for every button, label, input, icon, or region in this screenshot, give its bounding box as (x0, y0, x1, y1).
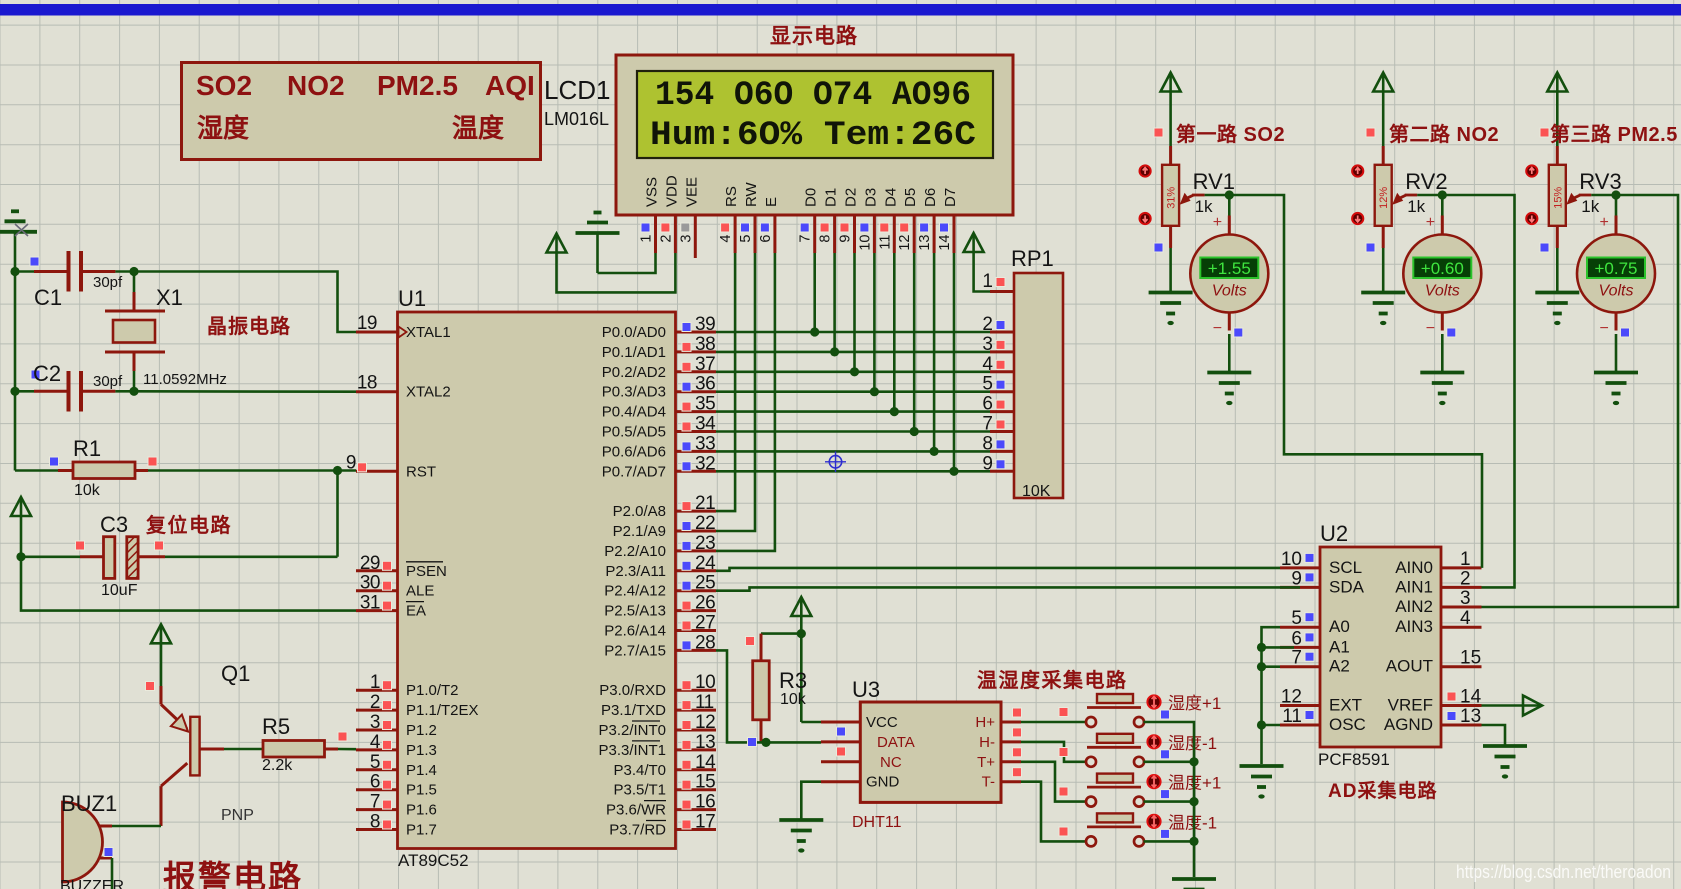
power +5V (RV2) (1373, 73, 1393, 92)
svg-text:Volts: Volts (1425, 283, 1460, 300)
label X1 (156, 285, 183, 310)
U2 pin 2 AIN1 (1395, 568, 1481, 596)
svg-text:P1.3: P1.3 (406, 742, 437, 759)
svg-text:AIN0: AIN0 (1395, 558, 1433, 577)
svg-text:13: 13 (695, 732, 715, 753)
label 晶振电路 (207, 314, 291, 338)
U1 pin 23 P2.2/A10 (604, 533, 716, 560)
RP1 pin 4 (982, 354, 1014, 375)
U2 pin 9 SDA (1280, 568, 1365, 596)
U1 pin 30 ALE (356, 573, 434, 600)
U1 pin 5 P1.4 (356, 752, 437, 779)
junction C2/X1 (129, 387, 138, 396)
wire power to RV3 (1556, 91, 1559, 165)
svg-text:7: 7 (370, 792, 380, 813)
label BUZZER (60, 878, 124, 889)
svg-text:VSS: VSS (644, 177, 661, 207)
svg-text:14: 14 (1460, 687, 1482, 708)
svg-text:39: 39 (695, 314, 715, 335)
square R1 left (50, 457, 59, 466)
wire meter2 to ground (1441, 334, 1444, 372)
wire RV3 wiper (1591, 194, 1616, 197)
wire switch to bus (1144, 800, 1194, 803)
wire EA rail (21, 557, 356, 611)
svg-text:报警电路: 报警电路 (163, 859, 303, 889)
wire left rail (14, 272, 17, 471)
wire LCD D6 vertical (933, 253, 936, 451)
svg-text:AOUT: AOUT (1386, 657, 1433, 676)
ground (RV2) (1361, 293, 1405, 326)
svg-text:Q1: Q1 (221, 661, 250, 686)
svg-text:P1.7: P1.7 (406, 822, 437, 839)
svg-text:10K: 10K (1022, 483, 1051, 500)
svg-text:P1.2: P1.2 (406, 722, 437, 739)
ground (RV3) (1535, 293, 1579, 326)
U1 pin 26 P2.5/A13 (604, 593, 716, 620)
wire C1 to XTAL1 (134, 272, 356, 333)
U1 pin 1 P1.0/T2 (356, 672, 459, 699)
svg-text:P3.0/RXD: P3.0/RXD (599, 682, 666, 699)
ground (crystal, top-left) (0, 211, 37, 271)
wire P0.5 to RP1 pin 7 (716, 430, 990, 433)
svg-text:C3: C3 (100, 512, 128, 537)
wire RV1 to AIN0 (1229, 195, 1482, 568)
square RV3 top (1540, 128, 1549, 137)
LCD1 pin 14 D7 (937, 188, 959, 253)
svg-text:25: 25 (695, 573, 715, 594)
U3 pin T- (982, 774, 1021, 791)
U1 pin 35 P0.4/AD4 (602, 394, 716, 421)
svg-text:R3: R3 (779, 668, 807, 693)
origin marker (825, 452, 846, 473)
label DHT11 (852, 814, 902, 831)
capacitor C2 (15, 371, 134, 412)
svg-text:显示电路: 显示电路 (770, 24, 858, 48)
square DATA (748, 738, 757, 747)
svg-text:PSEN: PSEN (406, 563, 447, 580)
junction A2 (1257, 662, 1266, 671)
U2 pin 3 AIN2 (1395, 588, 1481, 616)
wire LCD D1 vertical (833, 253, 836, 352)
label 11.0592MHz (143, 371, 227, 388)
svg-text:U1: U1 (398, 286, 426, 311)
wire H+ to switch1 (1021, 721, 1085, 724)
svg-text:+0.60: +0.60 (1421, 259, 1464, 278)
svg-text:31%: 31% (1166, 187, 1178, 209)
svg-text:38: 38 (695, 334, 715, 355)
junction D7/P0.7 (949, 467, 958, 476)
junction switch bus (1189, 797, 1198, 806)
label U3 (852, 677, 880, 702)
U2 pin 14 VREF (1388, 687, 1482, 715)
square RV1 bottom (1154, 243, 1163, 252)
wire P0.6 to RP1 pin 8 (716, 450, 990, 453)
ground (switch bus) (1172, 879, 1216, 889)
U1 pin 18 XTAL2 (356, 373, 451, 401)
wire buzzer pin2 down (111, 858, 114, 889)
svg-text:P3.4/T0: P3.4/T0 (613, 762, 666, 779)
svg-text:2: 2 (658, 235, 674, 243)
svg-text:P3.7/RD: P3.7/RD (609, 822, 666, 839)
svg-text:温度-1: 温度-1 (1168, 813, 1217, 832)
label RV3 1k (1581, 197, 1599, 216)
U1 pin 2 P1.1/T2EX (356, 692, 479, 719)
U1 AT89C52 body (398, 312, 676, 849)
junction switch bus (1189, 757, 1198, 766)
svg-text:R5: R5 (262, 714, 290, 739)
svg-text:VCC: VCC (866, 714, 898, 731)
square Q1 emitter (146, 682, 155, 691)
junction D1/P0.1 (830, 347, 839, 356)
svg-text:RST: RST (406, 463, 436, 480)
wire VCC (801, 721, 821, 724)
svg-text:E: E (763, 197, 780, 207)
wire power to RV1 (1169, 91, 1172, 165)
label 湿度-1 (1168, 734, 1217, 753)
svg-text:T+: T+ (977, 754, 995, 771)
LCD text line1 (655, 77, 971, 115)
svg-text:D1: D1 (823, 188, 840, 207)
U1 pin 37 P0.2/AD2 (602, 354, 716, 381)
U1 pin 13 P3.3/INT1 (598, 732, 716, 759)
svg-text:P1.1/T2EX: P1.1/T2EX (406, 702, 479, 719)
wire P0.3 to RP1 pin 5 (716, 390, 990, 393)
square R5 right (338, 732, 347, 741)
svg-text:−: − (1213, 320, 1222, 337)
wire R1 to RST (338, 469, 357, 472)
square R3 top (746, 637, 755, 646)
label R5 (262, 714, 290, 739)
svg-text:P2.3/A11: P2.3/A11 (605, 563, 666, 580)
U1 pin 11 P3.1/TXD (601, 692, 716, 719)
label 复位电路 (145, 513, 232, 537)
wire meter3 + (1615, 195, 1618, 216)
svg-text:30pf: 30pf (93, 274, 123, 291)
wire H- to switch2 (1021, 742, 1085, 762)
svg-text:C1: C1 (34, 285, 62, 310)
switch SW3 温度+1 (1086, 774, 1161, 807)
svg-text:12: 12 (897, 235, 913, 251)
svg-text:2: 2 (370, 692, 380, 713)
junction D5/P0.5 (910, 427, 919, 436)
svg-text:RV2: RV2 (1405, 169, 1447, 194)
U3 pin GND (821, 774, 900, 791)
svg-text:P1.4: P1.4 (406, 762, 437, 779)
svg-text:9: 9 (838, 235, 854, 243)
label RV1 (1193, 169, 1235, 194)
svg-text:EA: EA (406, 603, 426, 620)
ground (U2 address) (1240, 766, 1284, 799)
wire RV3 bottom (1556, 226, 1559, 292)
svg-text:第一路 SO2: 第一路 SO2 (1176, 122, 1285, 146)
wire LCD D5 vertical (913, 253, 916, 432)
svg-text:154 O6O O74 AO96: 154 O6O O74 AO96 (655, 77, 971, 115)
U1 pin 29 PSEN (356, 553, 447, 580)
square switch2 in (1059, 748, 1068, 757)
svg-text:−: − (1426, 320, 1435, 337)
U2 pin 11 OSC (1280, 706, 1366, 734)
svg-text:第三路 PM2.5: 第三路 PM2.5 (1550, 122, 1678, 146)
U1 pin 15 P3.5/T1 (613, 772, 716, 799)
square VCC (837, 727, 846, 736)
LCD1 pin 11 D4 (877, 188, 899, 253)
svg-text:11: 11 (877, 235, 893, 250)
wire LCD pin5 to U1 P2.1 (716, 253, 755, 531)
U1 pin 24 P2.3/A11 (605, 553, 716, 580)
svg-text:AGND: AGND (1384, 715, 1433, 734)
svg-text:18: 18 (357, 373, 377, 394)
svg-text:T-: T- (982, 774, 995, 791)
U1 pin 31 EA (356, 593, 426, 620)
square RV1 top (1154, 128, 1163, 137)
svg-text:7: 7 (1291, 648, 1302, 669)
wire RV2 to AIN1 (1442, 195, 1514, 587)
svg-text:12%: 12% (1378, 187, 1390, 209)
label 温湿度采集电路 (977, 668, 1128, 692)
svg-text:1k: 1k (1407, 197, 1425, 216)
svg-text:RW: RW (743, 181, 760, 207)
label C1 30pf (93, 274, 123, 291)
wire P0.7 to RP1 pin 9 (716, 470, 990, 473)
power +5V (RV3) (1547, 73, 1567, 92)
LCD1 pin 8 D1 (818, 188, 840, 253)
svg-text:P0.4/AD4: P0.4/AD4 (602, 404, 666, 421)
svg-text:SCL: SCL (1329, 558, 1362, 577)
label meter3 minus (1600, 320, 1609, 337)
svg-text:27: 27 (695, 613, 715, 634)
label C3 10uF (101, 582, 138, 599)
label R3 10k (780, 691, 807, 708)
U2 pin 5 A0 (1280, 608, 1350, 636)
svg-text:P0.5/AD5: P0.5/AD5 (602, 424, 666, 441)
svg-text:SO2: SO2 (196, 70, 252, 101)
square RV3 bottom (1540, 243, 1549, 252)
LCD1 pin 3 VEE (678, 177, 700, 258)
wire switch bus (1144, 722, 1194, 877)
square meter2 minus (1447, 328, 1456, 337)
svg-text:Hum:6O% Tem:26C: Hum:6O% Tem:26C (650, 117, 976, 155)
svg-text:AIN1: AIN1 (1395, 577, 1433, 596)
svg-text:4: 4 (718, 235, 734, 243)
wire LCD D4 vertical (893, 253, 896, 412)
svg-text:VREF: VREF (1388, 696, 1433, 715)
LCD1 pin 13 D6 (917, 188, 939, 253)
svg-text:晶振电路: 晶振电路 (207, 314, 291, 338)
junction OSC (1257, 720, 1266, 729)
LCD1 pin 2 VDD (658, 175, 680, 253)
svg-text:P2.0/A8: P2.0/A8 (613, 503, 666, 520)
square BUZ1 (104, 848, 113, 857)
svg-text:P2.7/A15: P2.7/A15 (604, 642, 666, 659)
U2 pin 7 A2 (1280, 648, 1350, 676)
svg-text:第二路 NO2: 第二路 NO2 (1389, 122, 1499, 146)
svg-text:P0.3/AD3: P0.3/AD3 (602, 384, 666, 401)
svg-text:A1: A1 (1329, 637, 1350, 656)
svg-text:+0.75: +0.75 (1594, 259, 1637, 278)
label RV2 1k (1407, 197, 1425, 216)
svg-text:1k: 1k (1195, 197, 1213, 216)
label meter1 minus (1213, 320, 1222, 337)
svg-text:15: 15 (695, 772, 715, 793)
svg-text:13: 13 (1460, 706, 1481, 727)
svg-text:VDD: VDD (663, 175, 680, 207)
U1 pin 21 P2.0/A8 (613, 493, 716, 520)
ground (LCD VSS) (576, 213, 620, 274)
RP1 pin 2 (982, 314, 1014, 335)
junction switch bus (1189, 837, 1198, 846)
square C3 left (76, 541, 85, 550)
LCD1 pin 7 D0 (798, 188, 820, 253)
U1 pin 14 P3.4/T0 (613, 752, 716, 779)
svg-text:1: 1 (370, 672, 380, 693)
svg-text:P2.2/A10: P2.2/A10 (604, 543, 666, 560)
square meter3 minus (1621, 328, 1630, 337)
wire LCD D3 vertical (873, 253, 876, 392)
svg-text:37: 37 (695, 354, 715, 375)
label R5 2.2k (262, 757, 293, 774)
label Q1 (221, 661, 250, 686)
wire RV1 bottom (1169, 226, 1172, 292)
wire AGND to ground (1482, 725, 1506, 745)
wire buzzer to Q1 collector (112, 825, 161, 828)
junction left rail / C2 (10, 387, 19, 396)
U3 pin T+ (977, 754, 1021, 771)
power +5V (Q1) (151, 624, 171, 643)
svg-text:BUZ1: BUZ1 (61, 791, 117, 816)
U1 pin 7 P1.6 (356, 792, 437, 819)
svg-text:P0.2/AD2: P0.2/AD2 (602, 364, 666, 381)
svg-text:5: 5 (738, 235, 754, 243)
svg-text:U3: U3 (852, 677, 880, 702)
wire power to RV2 (1382, 91, 1385, 165)
svg-text:P3.1/TXD: P3.1/TXD (601, 702, 666, 719)
U2 pin 1 AIN0 (1395, 549, 1481, 577)
U1 pin 28 P2.7/A15 (604, 632, 716, 659)
svg-text:D5: D5 (902, 188, 919, 207)
LCD1 pin 6 E (758, 197, 780, 253)
svg-text:19: 19 (357, 313, 377, 334)
ground (U3) (779, 820, 823, 853)
svg-text:湿度+1: 湿度+1 (1168, 694, 1221, 713)
svg-text:+: + (1600, 214, 1609, 231)
square switch3 out (1161, 790, 1170, 799)
svg-text:10: 10 (695, 672, 715, 693)
wire T- to switch4 (1021, 782, 1085, 842)
capacitor C1 (15, 251, 134, 292)
svg-text:1k: 1k (1581, 197, 1599, 216)
U2 pin 6 A1 (1280, 628, 1350, 656)
svg-text:22: 22 (695, 513, 715, 534)
square U3 right 2 (1013, 728, 1022, 737)
label PCF8591 (1318, 750, 1390, 769)
svg-text:P1.5: P1.5 (406, 782, 437, 799)
wire power to C3 (20, 516, 23, 557)
resistor R3 (753, 634, 770, 743)
svg-text:NC: NC (880, 754, 902, 771)
svg-text:P2.5/A13: P2.5/A13 (604, 603, 666, 620)
svg-text:RV3: RV3 (1579, 169, 1621, 194)
svg-text:21: 21 (695, 493, 715, 514)
U3 pin VCC (821, 714, 898, 731)
svg-text:10k: 10k (74, 482, 101, 499)
label C1 (34, 285, 62, 310)
svg-text:D3: D3 (862, 188, 879, 207)
junction D6/P0.6 (930, 447, 939, 456)
RP1 pin 3 (982, 334, 1014, 355)
U3 pin DATA (821, 734, 915, 751)
svg-text:31: 31 (360, 593, 380, 614)
junction D0/P0.0 (810, 327, 819, 336)
svg-text:AIN2: AIN2 (1395, 597, 1433, 616)
junction D3/P0.3 (870, 387, 879, 396)
U1 pin 33 P0.6/AD6 (602, 433, 716, 460)
svg-text:2.2k: 2.2k (262, 757, 293, 774)
svg-text:10k: 10k (780, 691, 807, 708)
U1 pin 4 P1.3 (356, 732, 437, 759)
svg-text:VEE: VEE (683, 177, 700, 207)
svg-text:26: 26 (695, 593, 715, 614)
wire C2 to XTAL2 (134, 390, 356, 393)
label 显示电路 (770, 24, 858, 48)
wire power down (800, 616, 803, 722)
label 湿度+1 (1168, 694, 1221, 713)
svg-text:P0.0/AD0: P0.0/AD0 (602, 324, 666, 341)
svg-text:16: 16 (695, 792, 715, 813)
watermark (1456, 862, 1671, 882)
resistor R1 (15, 462, 338, 479)
square switch3 in (1059, 787, 1068, 796)
wire SCL from U1 P2.3 (716, 568, 1280, 571)
LCD1 screen (637, 71, 993, 158)
potentiometer RV2 (1352, 165, 1417, 226)
wire R3 top rail (761, 632, 801, 635)
svg-text:11: 11 (1282, 706, 1302, 727)
label RP1 (1011, 246, 1054, 271)
svg-text:4: 4 (1460, 608, 1471, 629)
U1 pin 19 XTAL1 (356, 313, 451, 341)
label RV3 (1579, 169, 1621, 194)
svg-text:30: 30 (360, 573, 380, 594)
square U3 right 4 (1013, 768, 1022, 777)
svg-text:11.0592MHz: 11.0592MHz (143, 371, 227, 388)
buzzer BUZ1 (63, 802, 113, 882)
svg-text:H+: H+ (975, 714, 995, 731)
junction RV1 out (1225, 190, 1234, 199)
square C1 (30, 257, 39, 266)
label RV2 (1405, 169, 1447, 194)
wire VREF to power (1482, 704, 1524, 707)
svg-text:DHT11: DHT11 (852, 814, 902, 831)
svg-text:R1: R1 (73, 436, 101, 461)
svg-text:5: 5 (370, 752, 380, 773)
svg-text:35: 35 (695, 394, 715, 415)
svg-text:14: 14 (937, 235, 953, 251)
U2 pin 13 AGND (1384, 706, 1482, 734)
square meter1 minus (1234, 328, 1243, 337)
label U1 (398, 286, 426, 311)
svg-text:U2: U2 (1320, 521, 1348, 546)
svg-text:P2.4/A12: P2.4/A12 (604, 583, 666, 600)
LCD1 pin 4 RS (718, 186, 740, 253)
junction A1 (1257, 643, 1266, 652)
wire LCD pin4 to U1 P2.0 (716, 253, 735, 511)
svg-text:XTAL1: XTAL1 (406, 324, 451, 341)
junction R3 top rail (797, 629, 806, 638)
square switch1 in (1059, 708, 1068, 717)
junction R1/RST (333, 466, 342, 475)
U2 pin 10 SCL (1280, 549, 1362, 577)
U1 pin 25 P2.4/A12 (604, 573, 716, 600)
